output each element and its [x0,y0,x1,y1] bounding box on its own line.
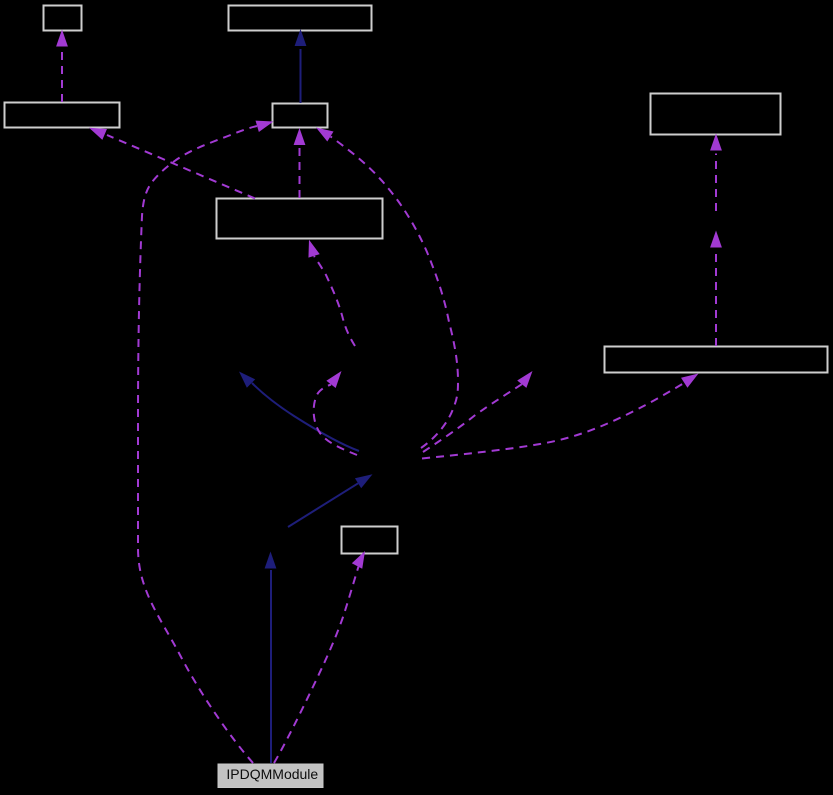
node box B2 top-center [229,6,372,31]
node box B3 left row2 [5,103,120,128]
node box B4 center row2 [273,104,328,128]
dashed edge IPDQMModule to B8 [274,548,370,763]
dashed edge N6 to B5 vertical [710,134,722,212]
dashed edge hub to B7 flat curve [422,369,702,459]
node IPDQMModule (current, grey) [218,764,323,788]
solid blue edge B4 to B2 [295,29,307,103]
node box B6 center two-line [217,199,383,239]
dashed edge B3 to B1 [56,30,68,103]
dashed edge B7 to invisible node N6 vertical [710,231,722,347]
dashed edge hub to invisible node N3 s-curve [314,367,357,455]
node box B1 top-left [44,6,82,31]
dashed edge hub to invisible node N5 [423,367,537,452]
svg-text:IPDQMModule: IPDQMModule [226,766,318,782]
node box B8 small center [342,527,398,554]
solid blue edge IPDQMModule up vertical (to invisible node) [265,552,277,764]
node box B7 right row4 [605,347,828,373]
solid blue edge invisible node to hub diagonal [288,469,376,527]
dashed edge IPDQMModule to B4 long left curve [138,116,275,763]
dashed edge N3 to B6 [303,238,355,346]
dashed edge B6 to B4 vertical [294,128,306,198]
dashed edge B6 to B3 diagonal [87,122,255,198]
solid blue edge hub to invisible node upper-left curve [235,367,359,451]
node box B5 right two-line [651,94,781,135]
dashed edge hub to B4 long right curve [313,122,458,448]
